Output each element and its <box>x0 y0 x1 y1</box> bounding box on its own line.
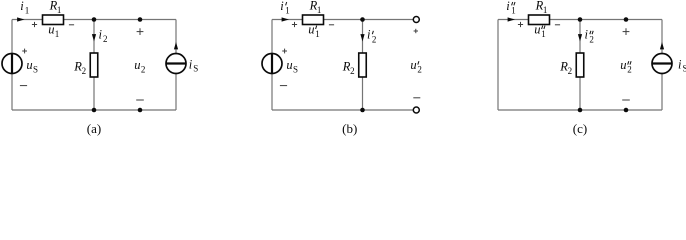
svg-text:i1: i1 <box>280 0 289 16</box>
svg-text:u2: u2 <box>410 58 422 75</box>
svg-text:iS: iS <box>678 57 686 73</box>
svg-text:u2: u2 <box>134 58 145 74</box>
svg-text:(c): (c) <box>573 121 587 136</box>
svg-text:u2: u2 <box>620 58 632 75</box>
svg-text:i2: i2 <box>367 28 376 45</box>
svg-text:uS: uS <box>286 58 298 74</box>
svg-text:R2: R2 <box>342 60 355 76</box>
svg-text:(b): (b) <box>342 121 357 136</box>
svg-text:iS: iS <box>189 57 199 73</box>
svg-text:R1: R1 <box>309 0 322 15</box>
svg-text:R2: R2 <box>73 60 86 76</box>
svg-text:i2: i2 <box>99 28 108 44</box>
svg-text:R1: R1 <box>49 0 62 15</box>
svg-text:i1: i1 <box>20 0 29 15</box>
svg-text:uS: uS <box>26 58 38 74</box>
svg-text:R1: R1 <box>535 0 548 15</box>
svg-text:(a): (a) <box>87 121 101 136</box>
svg-text:i2: i2 <box>585 28 594 45</box>
svg-text:R2: R2 <box>559 60 572 76</box>
svg-text:i1: i1 <box>506 0 515 16</box>
